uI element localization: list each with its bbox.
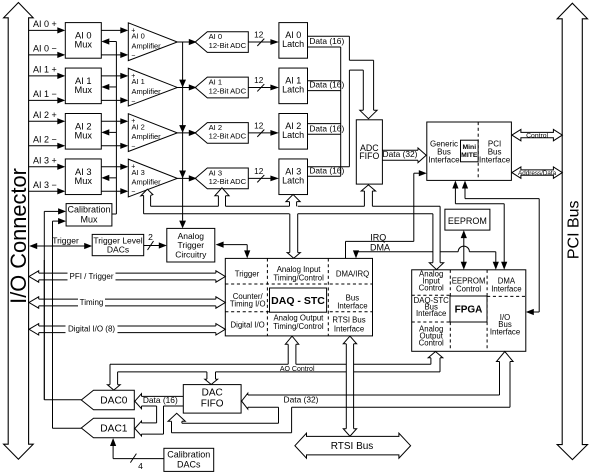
arrow into AI 3 Latch bottom (hollow) <box>286 194 300 206</box>
dac Calibration DACs box <box>164 448 214 471</box>
PCI Bus label <box>565 200 582 259</box>
arrow into Analog Output Control (hollow, bus right end) <box>428 352 443 372</box>
svg-text:−: − <box>131 53 135 60</box>
divider dashed in bus interface box <box>477 122 479 180</box>
svg-text:Trigger: Trigger <box>52 236 79 246</box>
wire amp1 output to ADC <box>177 86 195 88</box>
svg-text:Digital I/O (8): Digital I/O (8) <box>68 325 115 334</box>
wire mux0 + output <box>101 27 128 33</box>
svg-text:Data (16): Data (16) <box>309 80 344 90</box>
svg-text:AI 3 −: AI 3 − <box>33 180 57 190</box>
svg-text:Mux: Mux <box>75 39 93 49</box>
bus Data (32) top rail <box>248 394 500 396</box>
svg-text:Data (32): Data (32) <box>284 395 319 405</box>
wire mux0 - output <box>101 52 128 58</box>
svg-text:AI 2 +: AI 2 + <box>33 110 57 120</box>
svg-text:AI 3 +: AI 3 + <box>33 155 57 165</box>
svg-text:2: 2 <box>148 232 153 242</box>
wire amp0 output to ADC <box>177 41 195 43</box>
wire AI 3+ input line <box>29 164 66 170</box>
bus RTSI link DAQ-STC to RTSI bus (hollow double arrow) <box>343 336 356 436</box>
bus Data (16) from latch 1 <box>308 80 345 91</box>
bus AI timing-control top rail segments <box>151 205 441 207</box>
chip Generic Bus Interface / PCI Bus Interface box <box>427 122 512 180</box>
wire calibration feedback vertical <box>115 42 117 215</box>
svg-text:Calibration: Calibration <box>167 449 210 459</box>
svg-text:AI 2: AI 2 <box>132 123 145 132</box>
svg-text:Interface: Interface <box>337 302 367 311</box>
svg-text:12: 12 <box>254 31 264 40</box>
chip DAQ-STC outer box <box>225 258 372 336</box>
svg-text:DAC: DAC <box>202 387 223 398</box>
wire ADC2 to latch with 12-bit slash <box>248 122 279 137</box>
adc AI 1 12-Bit ADC <box>189 77 249 98</box>
wire DMA from DMA Interface to DAQ-STC <box>353 246 499 270</box>
node AI 1+ label <box>33 64 57 74</box>
svg-text:AO Control: AO Control <box>280 366 315 373</box>
arrow into Analog Trigger Circuitry top <box>179 221 186 229</box>
svg-text:12-Bit ADC: 12-Bit ADC <box>209 132 247 141</box>
trigger Analog Trigger Circuitry box <box>167 228 215 262</box>
svg-text:FIFO: FIFO <box>359 151 379 161</box>
wire mux3 + output <box>101 164 128 170</box>
wire AI 1- input line <box>29 97 66 103</box>
wire DAC0 output stub <box>44 399 81 401</box>
dac DAC1 <box>81 418 134 438</box>
svg-text:Data (16): Data (16) <box>143 395 178 405</box>
svg-text:PCI Bus: PCI Bus <box>565 200 582 259</box>
wire Generic Bus Interface to DMA Interface (left) <box>452 181 507 270</box>
svg-text:−: − <box>131 98 135 105</box>
bus Address/Data between PCI interface and PCI bus <box>512 167 562 178</box>
svg-text:12-Bit ADC: 12-Bit ADC <box>209 86 247 95</box>
latch AI 2 Latch <box>279 114 308 150</box>
memory EEPROM box <box>445 209 490 230</box>
svg-text:Latch: Latch <box>282 39 304 49</box>
bus Data (16) from latch 2 <box>308 123 345 134</box>
svg-text:DACs: DACs <box>107 245 129 255</box>
arrow into DAC FIFO top (hollow) <box>205 372 218 385</box>
wire mux1 + output <box>101 73 128 79</box>
svg-text:Control: Control <box>419 283 444 292</box>
svg-text:Latch: Latch <box>282 130 304 140</box>
mux Calibration Mux box <box>66 204 112 226</box>
latch AI 0 Latch <box>279 23 308 59</box>
svg-text:12-Bit ADC: 12-Bit ADC <box>209 41 247 50</box>
label Bus Interface cell <box>337 293 367 310</box>
svg-text:DAQ - STC: DAQ - STC <box>271 295 325 307</box>
label Trigger <box>52 236 79 246</box>
I/O Connector label <box>6 168 31 304</box>
bus Data (32) to Generic Bus Interface <box>382 148 426 163</box>
arrow into DAC FIFO right edge (hollow) <box>242 393 248 409</box>
wire calibration mux output to feedback vertical <box>112 213 117 215</box>
mux AI 0 Mux <box>65 23 101 59</box>
I/O Connector bus arrow (left, double-headed vertical) <box>4 3 34 460</box>
svg-text:Interface: Interface <box>491 284 521 293</box>
svg-text:DACs: DACs <box>177 459 201 469</box>
chip control FPGA outer box <box>412 270 526 352</box>
label PCI Bus Interface <box>479 139 511 164</box>
svg-text:Amplifier: Amplifier <box>132 132 162 141</box>
wire AI 0- input line <box>29 52 66 58</box>
bus Data (32) right end up to I/O Bus Interface <box>497 352 514 408</box>
divider DAQ-STC dashed verticals <box>267 258 328 336</box>
fifo DAC FIFO box <box>183 385 241 414</box>
svg-text:Interface: Interface <box>479 155 511 164</box>
label Analog Input Timing/Control cell <box>273 265 324 283</box>
svg-text:I/O Connector: I/O Connector <box>6 168 31 304</box>
svg-text:12: 12 <box>254 167 264 176</box>
label DMA <box>370 242 390 252</box>
op-amp AI 1 Amplifier <box>128 68 177 106</box>
svg-text:AI 1: AI 1 <box>132 77 145 86</box>
latch AI 1 Latch <box>279 68 308 104</box>
svg-text:Data (32): Data (32) <box>383 149 418 159</box>
svg-text:Amplifier: Amplifier <box>132 87 162 96</box>
label Generic Bus Interface <box>428 139 460 164</box>
svg-text:RTSI Bus: RTSI Bus <box>331 441 374 452</box>
divider control box dashed horizontals <box>412 295 526 322</box>
svg-text:12: 12 <box>254 76 264 85</box>
label Analog Input Control cell <box>419 269 444 292</box>
svg-text:Interface: Interface <box>428 155 460 164</box>
svg-text:Data (16): Data (16) <box>309 165 344 175</box>
wire DAC0 output to Calibration Mux <box>44 208 66 399</box>
bus Data (16) branch to DAC1 <box>135 406 164 436</box>
divider control box dashed verticals <box>450 270 487 352</box>
bus AO Control top rail segments <box>110 363 431 365</box>
arrow into DAQ-STC top from AI bus (hollow) <box>287 214 300 258</box>
fifo ADC FIFO box <box>356 120 382 184</box>
svg-text:Latch: Latch <box>282 176 304 186</box>
bus Data (32) branch down-left to DAC FIFO bottom <box>172 407 292 433</box>
bus Data (32) bottom rail segments <box>248 406 510 408</box>
svg-text:AI 1 −: AI 1 − <box>33 89 57 99</box>
wire ADC0 to latch with 12-bit slash <box>248 31 279 46</box>
node AI 0+ label <box>33 19 57 29</box>
label DMA Interface cell <box>491 276 521 293</box>
chip Mini MITE box <box>461 140 479 162</box>
svg-text:FIFO: FIFO <box>201 398 224 409</box>
bus AI timing-control bottom rail segments <box>144 213 433 215</box>
label Data (32) bottom <box>284 395 319 405</box>
wire mux2 + output <box>101 118 128 124</box>
wire ADC1 to latch with 12-bit slash <box>248 76 279 91</box>
PCI Bus arrow (right, double-headed vertical) <box>557 3 587 459</box>
wire calibration feedback into mux2 <box>101 129 116 135</box>
wire calibration feedback into mux0 <box>101 38 116 44</box>
svg-text:Control: Control <box>456 284 481 293</box>
wire DAC1 output to Calibration Mux <box>53 218 67 428</box>
adc AI 0 12-Bit ADC <box>189 32 249 53</box>
wire mux2 - output <box>101 143 128 149</box>
wire amp2 output to ADC <box>177 132 195 134</box>
svg-text:IRQ: IRQ <box>370 232 386 242</box>
svg-text:Timing/Control: Timing/Control <box>273 274 324 283</box>
wire Trigger Level DACs to Analog Trigger Circuitry with slash 2 <box>144 232 167 250</box>
bus Timing row <box>29 297 225 308</box>
wire Analog Trigger Circuitry to DAQ-STC Trigger <box>216 242 251 259</box>
svg-text:Amplifier: Amplifier <box>132 41 162 50</box>
arrow into AI 3 amplifier (hollow, bus left end) <box>141 189 153 214</box>
label DMA/IRQ cell <box>336 269 369 278</box>
arrow into ADC FIFO top (hollow) <box>360 110 377 118</box>
svg-text:Data (16): Data (16) <box>309 123 344 133</box>
junction arrow down on trunk at row 1 <box>179 80 186 88</box>
wire AI 3- input line <box>29 188 66 194</box>
arrow into DAC FIFO bottom (hollow) <box>168 413 185 432</box>
svg-text:AI 0: AI 0 <box>132 32 145 41</box>
label RTSI Bus Interface cell <box>332 315 365 333</box>
svg-text:AI 1 +: AI 1 + <box>33 64 57 74</box>
arrow into AI 3 ADC bottom (hollow) <box>215 188 229 207</box>
bus Control between PCI interface and PCI bus <box>512 129 562 140</box>
node AI 0- label <box>33 44 57 54</box>
bus PFI / Trigger row <box>29 271 225 282</box>
divider DAQ-STC dashed horizontals <box>225 284 372 312</box>
svg-text:−: − <box>131 189 135 196</box>
label Analog Output Timing/Control cell <box>273 314 324 332</box>
arrow into DAC0 top (hollow, bus left end) <box>107 364 120 390</box>
label EEPROM Control cell <box>452 276 486 293</box>
bus Digital I/O (8) row <box>29 324 225 335</box>
chip DAQ - STC inner box <box>270 288 327 312</box>
svg-text:AI 0 +: AI 0 + <box>33 19 57 29</box>
bus channel vertical right upper <box>348 36 350 60</box>
label Analog Output Control cell <box>419 324 444 347</box>
svg-text:Latch: Latch <box>282 85 304 95</box>
wire DAC1 output stub <box>53 427 82 429</box>
wire AI 2- input line <box>29 143 66 149</box>
dac DAC0 <box>81 390 134 410</box>
node AI 3- label <box>33 180 57 190</box>
svg-text:Address/Data: Address/Data <box>518 170 557 177</box>
label Digital I/O cell <box>230 320 264 329</box>
svg-text:Trigger: Trigger <box>235 269 260 278</box>
bus Data (16) from latch 0 <box>308 36 350 47</box>
latch AI 3 Latch <box>279 159 308 195</box>
svg-text:DMA: DMA <box>370 242 390 252</box>
svg-text:EEPROM: EEPROM <box>448 216 487 226</box>
label Counter/Timing I/O cell <box>230 292 266 308</box>
bus AI control right branch down to Analog Input Control <box>429 206 443 269</box>
mux AI 1 Mux <box>65 68 101 104</box>
op-amp AI 3 Amplifier <box>128 159 177 197</box>
svg-text:AI 3: AI 3 <box>132 168 145 177</box>
svg-text:Timing/Control: Timing/Control <box>273 322 324 331</box>
svg-text:Data (16): Data (16) <box>309 36 344 46</box>
svg-text:12-Bit ADC: 12-Bit ADC <box>209 177 247 186</box>
wire mux1 - output <box>101 97 128 103</box>
label I/O Bus Interface cell <box>490 313 520 337</box>
arrow into ADC FIFO bottom (hollow) <box>361 185 375 206</box>
svg-text:Mini: Mini <box>463 144 477 151</box>
junction arrow down on trunk at row 3 <box>179 171 186 179</box>
bus Data (16) FIFO to DAC0 <box>135 394 184 409</box>
wire Calibration DACs to DAC1 with slash 4 <box>110 438 164 471</box>
svg-text:Circuitry: Circuitry <box>175 249 207 259</box>
mux AI 2 Mux <box>65 114 101 150</box>
svg-text:FPGA: FPGA <box>455 305 483 316</box>
op-amp AI 2 Amplifier <box>128 114 177 152</box>
bus RTSI Bus (horizontal double arrow) <box>295 433 411 458</box>
wire mux3 - output <box>101 188 128 194</box>
svg-text:MITE: MITE <box>461 152 478 159</box>
node AI 1- label <box>33 89 57 99</box>
bus AO Control bottom rail segments <box>118 371 440 373</box>
label DAQ-STC Bus Interface cell <box>414 296 449 318</box>
bus ADC FIFO top arrow shaft <box>363 60 373 110</box>
svg-text:Mux: Mux <box>75 130 93 140</box>
svg-text:Calibration: Calibration <box>67 204 110 214</box>
wire amp3 output to ADC <box>177 177 195 179</box>
wire Trigger line from I/O connector to Trigger Level DACs <box>29 243 92 249</box>
wire AI 2+ input line <box>29 118 66 124</box>
svg-text:12: 12 <box>254 122 264 131</box>
wire EEPROM to EEPROM Control (bidirectional) <box>461 230 467 270</box>
wire IRQ from DAQ-STC to Generic Bus Interface <box>346 170 427 258</box>
wire ADC3 to latch with 12-bit slash <box>248 167 279 182</box>
wire calibration feedback into mux1 <box>101 84 116 90</box>
wire AI 1+ input line <box>29 73 66 79</box>
svg-text:Control: Control <box>419 339 444 348</box>
svg-text:Control: Control <box>526 133 548 140</box>
svg-text:Mux: Mux <box>75 176 93 186</box>
wire AI 0+ input line <box>29 27 66 33</box>
wire Generic Bus Interface to I/O Bus Interface (right) <box>462 181 539 316</box>
svg-text:Interface: Interface <box>490 328 520 337</box>
fpga FPGA inner box <box>450 296 487 322</box>
label AO Control <box>280 366 315 373</box>
node AI 3+ label <box>33 155 57 165</box>
svg-text:Timing: Timing <box>80 298 104 307</box>
svg-text:Mux: Mux <box>75 85 93 95</box>
wire amplifier output trunk vertical <box>182 42 184 221</box>
svg-text:Amplifier: Amplifier <box>132 178 162 187</box>
svg-text:Mux: Mux <box>80 214 98 224</box>
wire DAC-calibration verticals over rows <box>44 260 52 428</box>
svg-text:Interface: Interface <box>416 309 446 318</box>
bus channel vertical left <box>340 47 342 176</box>
op-amp AI 0 Amplifier <box>128 23 177 61</box>
label IRQ <box>370 232 386 242</box>
wire calibration feedback into mux3 <box>101 175 116 181</box>
svg-text:DAC1: DAC1 <box>100 424 128 435</box>
bus channel vertical right lower <box>348 70 350 167</box>
label Trigger cell <box>235 269 260 278</box>
svg-text:RTSI Bus: RTSI Bus <box>332 315 365 324</box>
svg-text:AI 0 −: AI 0 − <box>33 44 57 54</box>
dac Trigger Level DACs box <box>92 234 144 255</box>
node AI 2- label <box>33 134 57 144</box>
mux AI 3 Mux <box>65 159 101 195</box>
svg-text:AI 2 −: AI 2 − <box>33 134 57 144</box>
bus jog to ADC FIFO arrow <box>349 60 373 70</box>
svg-text:Digital I/O: Digital I/O <box>230 320 264 329</box>
svg-text:DAC0: DAC0 <box>100 396 128 407</box>
arrow into DAQ-STC bottom from AO bus (hollow) <box>285 336 298 364</box>
svg-text:4: 4 <box>138 461 143 471</box>
adc AI 2 12-Bit ADC <box>189 123 249 144</box>
junction arrow down on trunk at row 2 <box>179 125 186 133</box>
svg-text:DMA/IRQ: DMA/IRQ <box>336 269 369 278</box>
svg-text:Timing I/O: Timing I/O <box>230 299 266 308</box>
svg-text:PFI / Trigger: PFI / Trigger <box>69 272 113 281</box>
svg-text:Interface: Interface <box>334 324 364 333</box>
bus Data (16) from latch 3 <box>308 165 350 176</box>
svg-text:−: − <box>131 144 135 151</box>
adc AI 3 12-Bit ADC <box>189 168 249 189</box>
node AI 2+ label <box>33 110 57 120</box>
